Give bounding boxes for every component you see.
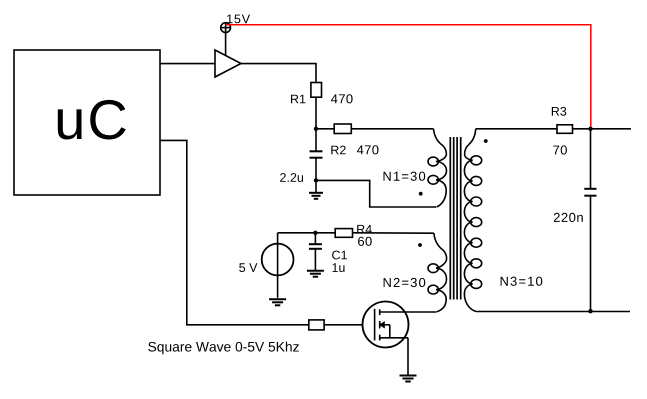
15V supply symbol [221, 23, 231, 33]
capacitor 2.2u [310, 151, 323, 157]
label 5 V [239, 263, 257, 272]
value 70 [553, 145, 567, 154]
wire R3 to node3 and output [573, 128, 632, 130]
transformer winding N3 [464, 129, 481, 312]
capacitor 220n [584, 189, 596, 196]
phase dot N1 [419, 192, 423, 196]
wire supply to buffer top [225, 33, 227, 57]
wire 220n to bottom rail [590, 196, 592, 312]
wire buffer output to R1 [241, 64, 316, 83]
uC block [14, 50, 160, 195]
bottom output wire [476, 311, 630, 313]
wire uC pin2 down to gate resistor [160, 140, 309, 324]
wire node2 to N1 bottom [316, 180, 436, 207]
op-amp buffer U1 [215, 50, 241, 77]
wire R4 to N2 top [353, 232, 434, 234]
wire node3 to 220n [590, 129, 592, 189]
5V source V1 [262, 233, 294, 298]
label N1=30 [384, 172, 426, 181]
transformer winding N2 [428, 233, 447, 312]
resistor R3 [557, 125, 573, 134]
wire gate resistor to MOSFET gate [324, 324, 375, 326]
node dot [588, 309, 592, 313]
transformer core [450, 137, 460, 300]
label N2=30 [384, 278, 426, 287]
wire node to R2 [316, 128, 334, 130]
label N3=10 [501, 277, 543, 286]
resistor R1 [311, 83, 322, 98]
label Square Wave 0-5V 5Khz [148, 342, 299, 355]
ground below MOSFET [400, 376, 417, 382]
value 470 (R2) [357, 145, 379, 154]
label 15V [227, 15, 250, 24]
ground below C1 [307, 271, 324, 277]
label R3 [552, 107, 566, 116]
value 2.2u [280, 173, 303, 182]
ground below 2.2u [309, 180, 323, 198]
phase dot N2 [418, 243, 422, 247]
phase dot N3 [484, 139, 488, 143]
wire uC pin1 to buffer input [160, 63, 215, 65]
value 470 (R1) [331, 94, 353, 103]
label R1 [291, 95, 305, 104]
capacitor C1 [309, 233, 322, 271]
wire cap to node2 [315, 158, 317, 181]
red wire 15V rail [226, 25, 591, 129]
node dot [314, 127, 318, 131]
wire 5V to R4 [278, 232, 336, 234]
gate resistor [309, 320, 324, 330]
label R2 [331, 146, 345, 155]
value 1u [333, 263, 345, 272]
value 220n [554, 213, 583, 222]
wire R1 to node [315, 97, 317, 151]
label C1 [332, 251, 347, 260]
label uC [58, 100, 126, 140]
ground below 5V [269, 299, 286, 305]
transformer winding N1 [428, 129, 447, 207]
wire R2 to N1 top [351, 128, 433, 130]
resistor R2 [334, 124, 351, 134]
wire N3 top to R3 [476, 128, 557, 130]
node dot [313, 231, 317, 235]
label R4 [357, 225, 372, 234]
MOSFET Q1 [363, 302, 437, 376]
node dot [588, 127, 592, 131]
node dot [314, 178, 318, 182]
resistor R4 [335, 229, 352, 238]
value 60 [358, 237, 372, 246]
